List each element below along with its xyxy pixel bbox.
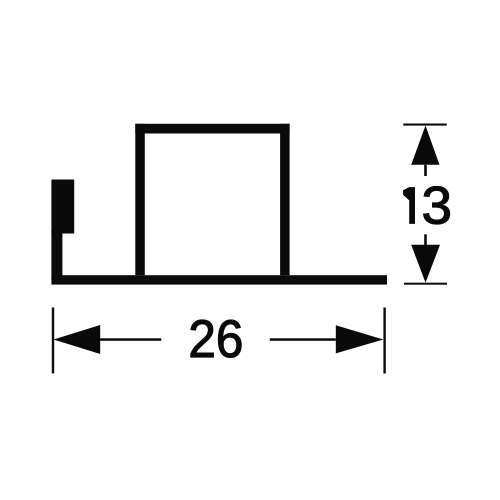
- bottom extension tick: [404, 283, 447, 285]
- left arrowhead: [54, 325, 101, 354]
- upper stem: [424, 165, 427, 176]
- svg-text:26: 26: [188, 310, 243, 369]
- left hook thick part: [51, 180, 74, 234]
- right stem: [270, 338, 336, 341]
- base flange: [51, 275, 387, 284]
- square right wall: [280, 124, 290, 275]
- dimension text 1 (custom glyph): [403, 187, 415, 224]
- horizontal dimension (26): [52, 308, 386, 374]
- square top edge: [135, 124, 289, 134]
- left hook thin leg: [51, 230, 62, 280]
- right extension tick: [383, 308, 385, 374]
- left stem: [100, 338, 161, 341]
- up arrowhead: [411, 126, 439, 165]
- vertical dimension (13): [403, 124, 452, 285]
- svg-text:3: 3: [422, 176, 453, 235]
- left extension tick: [52, 308, 54, 374]
- lower stem: [424, 234, 427, 245]
- down arrowhead: [411, 245, 440, 283]
- square left wall: [135, 124, 145, 275]
- profile outline: top-hat square section: [51, 124, 387, 285]
- top extension tick: [403, 124, 447, 126]
- right arrowhead: [336, 325, 384, 353]
